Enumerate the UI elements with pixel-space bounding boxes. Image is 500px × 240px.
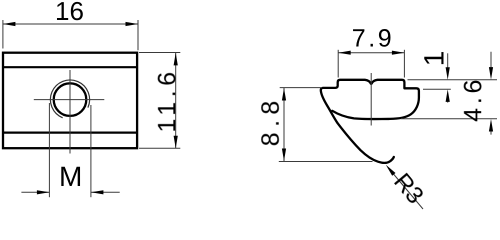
svg-text:11.6: 11.6 <box>153 67 181 132</box>
wire: dim 11.6 extension top <box>139 52 180 54</box>
node: tapped hole, minor-diameter circle <box>54 83 87 116</box>
svg-text:8.8: 8.8 <box>257 95 285 146</box>
wire: vertical centerline <box>69 70 71 154</box>
wire: outer rectangle of nut top view <box>3 53 137 149</box>
wire: vertical centerline of profile <box>370 73 372 126</box>
wire: dim 16 extension left <box>2 20 4 49</box>
wire: dim M dimension line left tail <box>21 191 49 193</box>
wire: dim 4.6 upper dimension line <box>490 52 492 74</box>
node: thread major-diameter 3/4 arc <box>50 80 89 118</box>
wire: dim 8.8 extension bottom <box>279 161 373 163</box>
wire: dim 11.6 extension bottom <box>139 147 180 149</box>
wire: lower step line <box>3 132 137 134</box>
wire: dim M extension left <box>48 103 50 197</box>
svg-text:7.9: 7.9 <box>352 25 395 53</box>
wire: R3 leader line <box>388 168 423 210</box>
wire: dim 4.6 lower dimension line <box>490 125 492 135</box>
svg-text:M: M <box>59 161 82 192</box>
wire: horizontal centerline <box>34 99 105 101</box>
svg-text:R3: R3 <box>388 168 428 209</box>
wire: dim 7.9 dimension line <box>338 52 404 54</box>
wire: profile outline of roll-in T-nut cross-section <box>321 80 419 163</box>
svg-text:1: 1 <box>419 51 450 67</box>
wire: dim 7.9 extension left <box>337 50 339 78</box>
wire: extension of body bottom surface <box>401 118 497 120</box>
wire: extension of flange top surface <box>423 88 451 90</box>
wire: dim 8.8 extension top <box>280 87 322 89</box>
wire: dim M dimension line right tail <box>91 191 120 193</box>
svg-text:16: 16 <box>55 0 84 26</box>
wire: dim 8.8 dimension line <box>283 88 285 161</box>
wire: upper step line <box>3 66 137 68</box>
wire: dim 11.6 dimension line <box>175 53 177 148</box>
wire: extension of boss top surface <box>408 79 498 81</box>
wire: dim M extension right <box>90 105 92 197</box>
wire: dim 1 upper dimension line <box>447 53 449 74</box>
svg-text:4.6: 4.6 <box>459 76 487 122</box>
wire: dim 16 dimension line <box>3 23 138 25</box>
wire: dim 16 extension right <box>137 20 139 50</box>
wire: dim 7.9 extension right <box>403 50 405 78</box>
wire: dim 1 lower dimension line <box>447 94 449 103</box>
